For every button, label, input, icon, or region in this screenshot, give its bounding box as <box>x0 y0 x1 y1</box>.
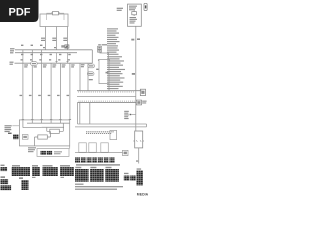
ground wire from motor <box>138 148 140 164</box>
color code legend text lines <box>75 184 123 190</box>
relay top link <box>98 60 109 62</box>
resistor network rail 1 <box>27 122 70 124</box>
blower motor label block <box>124 111 129 119</box>
small label L3 on wire x88 <box>89 79 93 80</box>
left legend column 3 table <box>32 165 40 178</box>
right cluster headers <box>124 168 141 174</box>
resistor R2 <box>35 131 51 146</box>
small connector bracket box <box>110 130 117 139</box>
blower motor resistor assembly box <box>19 120 69 146</box>
right legend table group headers <box>75 167 111 168</box>
left legend column 5 table <box>60 165 74 178</box>
pin pass-through stubs C1 <box>23 50 42 53</box>
connector C1 label (left of strip) <box>10 48 15 53</box>
top right fuse block box B <box>128 4 142 26</box>
wire label on x80 wire <box>81 64 85 67</box>
wire size label 1.6 <box>131 38 140 74</box>
right legend table group 1 <box>75 169 89 182</box>
splice pack bus (hatched) <box>77 91 141 93</box>
wire color code text column (right side) <box>107 28 125 89</box>
main feed wire from top-right fuse down <box>135 26 137 131</box>
label pointer line <box>12 125 19 127</box>
label right of module strip arrow <box>142 101 146 104</box>
module internal wire 1 <box>79 102 81 124</box>
small connector table under left label <box>13 135 19 140</box>
pin stubs between C1 and C2 <box>23 53 68 64</box>
resistor R1 <box>47 123 64 133</box>
resistor network rail 2 <box>42 126 64 128</box>
wire across at y 96.5 <box>77 96 136 98</box>
wire stub from resistor box to connector detail <box>69 146 71 149</box>
grid reference square <box>144 3 147 10</box>
module bottom line 1 <box>78 123 147 125</box>
right legend table group 2 <box>90 169 104 182</box>
wire V2 <box>31 63 33 123</box>
pin numbers above connector strip <box>21 45 67 49</box>
wire V5 <box>59 63 61 123</box>
relay element 1 <box>98 46 102 49</box>
blower resistor name text below box <box>28 147 36 152</box>
module internal wire 2 <box>89 102 91 124</box>
ground label <box>136 160 138 161</box>
box B header text <box>129 6 137 11</box>
wire V6 <box>69 63 71 120</box>
fuse F2 in box B <box>132 11 137 17</box>
pin numbers above C2 <box>21 59 70 60</box>
tick label below relay <box>96 69 98 70</box>
relay contact wire right <box>100 53 109 60</box>
PDF badge <box>0 0 39 22</box>
wire W2 from box A to C1 strip <box>56 27 58 50</box>
pin numbers below strip <box>21 54 71 55</box>
wire from C2 pin down to splice bus (left) <box>79 63 81 90</box>
wire labels lower (row 2) <box>20 95 70 96</box>
label left of box B <box>117 8 123 11</box>
right legend table group 3 <box>105 169 119 182</box>
relay right leg down to splice bus <box>108 60 110 91</box>
wire end ticks above C2 <box>55 61 68 63</box>
off-page arrow at right end of splice bus <box>140 89 145 95</box>
wire W1 from box A pin to C1 strip <box>45 27 47 50</box>
left legend column 4 table <box>43 165 59 176</box>
connector strip C1 line 2 <box>15 52 77 54</box>
blower motor resistor text label (left) <box>5 125 12 134</box>
baseline wire under face boxes <box>75 152 123 154</box>
module top pin strip <box>78 101 137 103</box>
relay left leg down <box>99 60 109 84</box>
right legend ribbon (connector segments) <box>75 157 115 162</box>
right cluster tall table <box>137 171 144 186</box>
fuse F1 in box A <box>52 12 60 15</box>
relay element 2 <box>98 50 102 53</box>
wire label W1 (0.8 PK) <box>41 38 45 41</box>
off-page arrow at right end of module strip <box>136 100 141 105</box>
option oval label under C2 <box>31 62 38 66</box>
module bottom line 2 <box>75 126 147 128</box>
fuse block box A (underhood fuse block, top left) <box>40 14 68 27</box>
connector C2 right edge <box>91 50 93 63</box>
connector C2 label and box <box>61 45 69 48</box>
svg-text:PDF: PDF <box>9 7 31 19</box>
arrow dot from label to motor wire <box>130 114 136 115</box>
wire V3 <box>41 63 43 123</box>
oval label L1 on wire x88 <box>88 64 95 68</box>
oval label L2 on wire x88 <box>87 72 94 76</box>
right cluster small table 1 <box>124 176 130 181</box>
connector strip C2 line 3 <box>15 62 93 64</box>
label line under ribbon <box>76 164 120 165</box>
wire1 tap rail <box>23 127 42 129</box>
wire W3 from box A to C1 strip <box>67 27 69 50</box>
pin number row under module <box>86 132 114 134</box>
wire from C2 pin down to splice bus (x88) <box>87 63 89 90</box>
right cluster small table 2 <box>130 176 136 181</box>
connector detail box under resistor <box>37 149 69 157</box>
relay label (top) <box>98 44 107 45</box>
small connector box at baseline right end <box>123 150 129 155</box>
C2 left label <box>10 62 14 65</box>
small outlined connector box next to it <box>22 135 28 140</box>
wire color labels below C2 <box>24 64 74 67</box>
module box left edge <box>77 102 79 124</box>
connector face boxes under module <box>79 143 109 153</box>
wire V4 <box>50 63 52 123</box>
wire V1 strip to resistor <box>22 63 24 127</box>
blower resistor terminals <box>22 119 71 121</box>
left legend column 1 tables <box>1 165 12 191</box>
motor terminal ticks <box>136 140 141 141</box>
wire size label on relay leg <box>106 72 109 74</box>
wire label W3 <box>63 38 67 41</box>
left legend column 2 table <box>12 165 31 190</box>
blower motor M1 <box>133 131 144 148</box>
box B lower text <box>130 17 138 24</box>
wire label W2 <box>52 38 56 41</box>
module bottom right join <box>146 124 148 127</box>
connector strip C1 line 1 <box>15 49 92 51</box>
svg-text:MEDIA: MEDIA <box>137 192 149 196</box>
